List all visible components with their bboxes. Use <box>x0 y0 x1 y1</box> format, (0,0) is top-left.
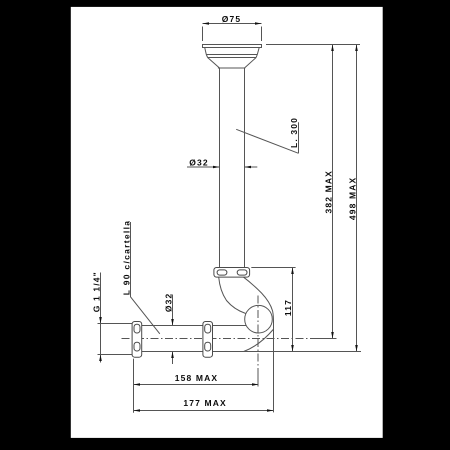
svg-text:G 1 1/4": G 1 1/4" <box>91 271 101 312</box>
svg-text:Ø32: Ø32 <box>189 157 209 167</box>
svg-text:498 MAX: 498 MAX <box>347 177 357 220</box>
svg-text:177 MAX: 177 MAX <box>183 398 226 408</box>
svg-text:Ø32: Ø32 <box>163 293 173 313</box>
svg-text:Ø75: Ø75 <box>222 14 242 24</box>
svg-text:L 90 c/cartella: L 90 c/cartella <box>121 220 131 296</box>
svg-text:L. 300: L. 300 <box>289 117 299 148</box>
svg-text:117: 117 <box>283 299 293 316</box>
svg-text:382 MAX: 382 MAX <box>323 170 333 213</box>
svg-text:158 MAX: 158 MAX <box>175 373 218 383</box>
